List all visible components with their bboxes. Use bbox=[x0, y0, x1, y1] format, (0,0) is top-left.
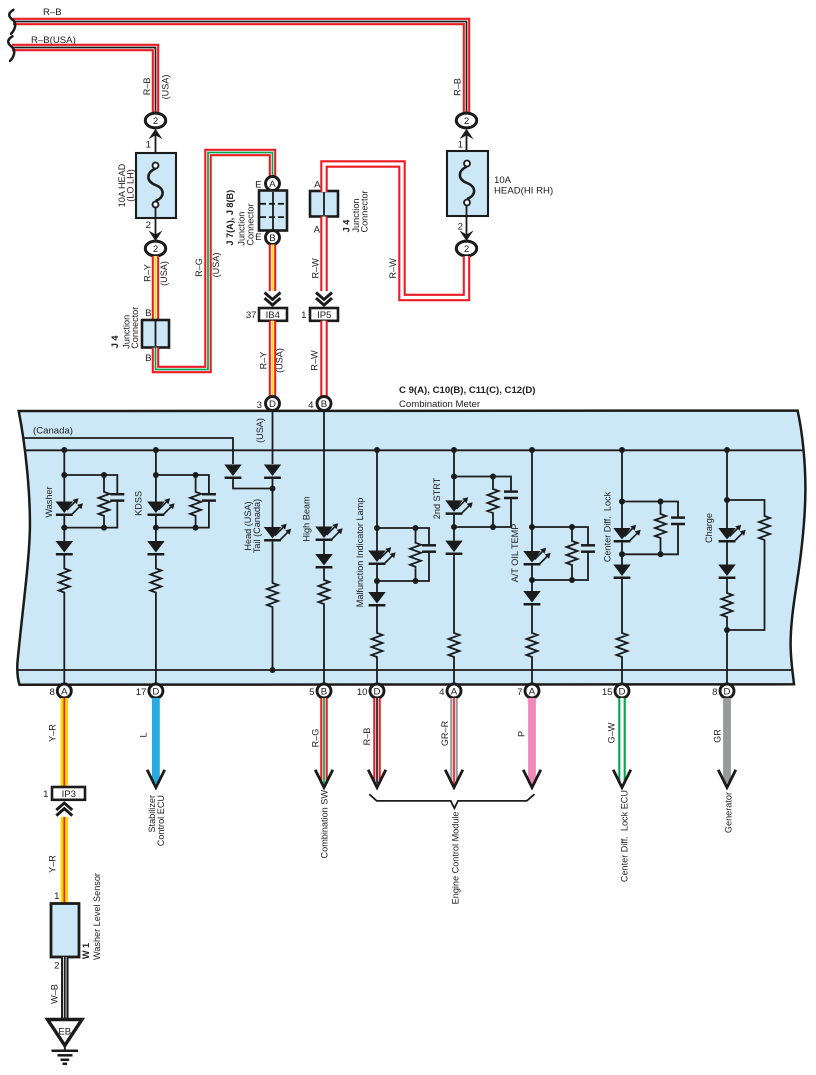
svg-text:R–G: R–G bbox=[310, 729, 320, 748]
parallel RC rails Washer bbox=[64, 475, 117, 528]
svg-text:(USA): (USA) bbox=[274, 348, 284, 373]
svg-text:A: A bbox=[314, 180, 321, 191]
svg-text:(USA): (USA) bbox=[211, 253, 221, 278]
diode A/T OIL TEMP bbox=[531, 580, 533, 591]
meter pin 15 D (bottom) bbox=[615, 684, 629, 698]
wire W-B sensor to ground bbox=[61, 957, 69, 1020]
svg-text:GR–R: GR–R bbox=[440, 720, 450, 746]
svg-text:L: L bbox=[138, 732, 148, 737]
wire GR-R bbox=[450, 698, 458, 784]
diode Malfunction Indicator Lamp bbox=[376, 581, 378, 592]
connector oval 2 below fuse LO LH bbox=[145, 241, 165, 256]
wire G-W bbox=[618, 698, 626, 784]
meter pin 8 D (bottom) bbox=[720, 684, 734, 698]
svg-text:IB4: IB4 bbox=[266, 310, 281, 321]
wire GR bbox=[723, 698, 731, 784]
resistor parallel Washer bbox=[103, 475, 105, 490]
svg-text:2: 2 bbox=[54, 961, 59, 972]
continuation brace top wire R-B bbox=[9, 10, 15, 34]
wire R-B top feed bbox=[13, 22, 467, 114]
wire L bbox=[152, 698, 160, 784]
svg-text:J 4: J 4 bbox=[110, 335, 120, 349]
svg-text:Charge: Charge bbox=[704, 513, 714, 543]
svg-text:1: 1 bbox=[458, 140, 463, 151]
svg-text:Malfunction Indicator Lamp: Malfunction Indicator Lamp bbox=[355, 498, 365, 608]
svg-text:Engine Control Module: Engine Control Module bbox=[450, 812, 460, 905]
bus tap KDSS bbox=[153, 447, 159, 453]
node bottom Malfunction Indicator Lamp bbox=[374, 578, 380, 584]
bus tap Charge bbox=[724, 447, 730, 453]
svg-text:Control ECU: Control ECU bbox=[156, 795, 166, 846]
svg-text:J 7(A), J 8(B): J 7(A), J 8(B) bbox=[225, 190, 235, 246]
svg-text:Washer: Washer bbox=[44, 486, 54, 517]
bus tap A/T OIL TEMP bbox=[529, 447, 535, 453]
node top Charge bbox=[724, 497, 730, 503]
svg-text:Center Diff. Lock: Center Diff. Lock bbox=[602, 491, 612, 562]
node top Malfunction Indicator Lamp bbox=[374, 525, 380, 531]
wire R-B(USA) feed bbox=[12, 48, 156, 114]
svg-text:IP5: IP5 bbox=[317, 310, 331, 321]
wire Y-R IP3 to washer level sensor bbox=[61, 817, 69, 904]
LED A/T OIL TEMP bbox=[531, 527, 533, 551]
svg-text:KDSS: KDSS bbox=[133, 491, 143, 516]
svg-text:D: D bbox=[619, 686, 626, 697]
combination meter body bbox=[17, 411, 805, 685]
connector oval 2 above fuse HI RH bbox=[456, 113, 476, 128]
svg-text:R–Y: R–Y bbox=[142, 264, 152, 282]
LED Center Diff. Lock bbox=[621, 502, 623, 529]
connector IP3 bbox=[52, 787, 85, 800]
svg-text:15: 15 bbox=[602, 687, 613, 698]
pin stem 1 of fuse LO LH bbox=[155, 130, 157, 163]
svg-text:B: B bbox=[269, 233, 275, 244]
svg-text:(Canada): (Canada) bbox=[33, 426, 73, 437]
arrow to bbox=[523, 770, 541, 788]
wire internal bottom bus bbox=[18, 669, 792, 671]
capacitor parallel Washer bbox=[110, 493, 124, 496]
svg-text:(USA): (USA) bbox=[159, 261, 169, 286]
node bottom A/T OIL TEMP bbox=[529, 577, 535, 583]
svg-text:Y–R: Y–R bbox=[47, 724, 57, 742]
svg-text:R–G: R–G bbox=[194, 258, 204, 277]
LED Malfunction Indicator Lamp bbox=[376, 528, 378, 551]
bus tap Center Diff. Lock bbox=[619, 447, 625, 453]
wire R-G (USA) J4 to J7 bbox=[156, 153, 273, 370]
svg-text:(LO LH): (LO LH) bbox=[126, 169, 136, 201]
svg-text:E: E bbox=[255, 179, 261, 190]
wire R-Y (USA) from J7 pin B bbox=[269, 245, 277, 292]
wire P bbox=[528, 698, 536, 784]
pin stem 2 of fuse LO LH bbox=[155, 207, 157, 240]
svg-text:Y–R: Y–R bbox=[47, 855, 57, 873]
svg-text:D: D bbox=[724, 686, 731, 697]
diode KDSS bbox=[155, 528, 157, 541]
meter pin 3 D (top) bbox=[266, 397, 280, 411]
junction connector J4 (right) bbox=[310, 191, 338, 217]
node bottom Charge bbox=[724, 627, 730, 633]
svg-text:3: 3 bbox=[257, 400, 262, 411]
node top Center Diff. Lock bbox=[619, 499, 625, 505]
diode (USA) head/tail bbox=[272, 411, 274, 465]
svg-text:R–Y: R–Y bbox=[259, 352, 269, 370]
arrow to bbox=[368, 770, 386, 788]
svg-text:R–B: R–B bbox=[43, 7, 62, 18]
junction connector J4 (left) bbox=[142, 320, 169, 348]
resistor series A/T OIL TEMP bbox=[531, 604, 533, 631]
resistor series Washer bbox=[63, 554, 65, 566]
svg-text:A/T OIL TEMP: A/T OIL TEMP bbox=[510, 524, 520, 583]
resistor series 2nd STRT bbox=[453, 554, 455, 631]
svg-text:B: B bbox=[321, 399, 327, 410]
diode Charge bbox=[726, 541, 728, 565]
svg-text:Connector: Connector bbox=[130, 307, 140, 349]
wire R-W fuse HI RH to J4 bbox=[324, 164, 467, 298]
connector oval 2 above fuse LO LH bbox=[145, 113, 165, 128]
svg-text:A: A bbox=[269, 179, 276, 190]
svg-text:R–B: R–B bbox=[362, 728, 372, 746]
svg-text:B: B bbox=[145, 353, 151, 364]
wire (Canada) branch bbox=[23, 438, 233, 464]
continuation brace wire R-B(USA) bbox=[8, 36, 14, 61]
parallel RC rails KDSS bbox=[156, 475, 209, 528]
arrow to bbox=[445, 770, 463, 788]
parallel RC rails A/T OIL TEMP bbox=[532, 527, 588, 580]
LED Washer bbox=[63, 475, 65, 502]
svg-text:B: B bbox=[145, 308, 151, 319]
node top KDSS bbox=[153, 472, 159, 478]
svg-text:7: 7 bbox=[517, 687, 522, 698]
svg-text:R–B: R–B bbox=[452, 78, 462, 96]
node bottom 2nd STRT bbox=[451, 524, 457, 530]
svg-text:Connector: Connector bbox=[246, 203, 256, 245]
svg-text:HEAD(HI RH): HEAD(HI RH) bbox=[494, 186, 553, 197]
svg-text:G–W: G–W bbox=[606, 722, 616, 743]
svg-text:A: A bbox=[529, 686, 536, 697]
svg-text:2: 2 bbox=[458, 222, 463, 233]
pin stem 2 of fuse HI RH bbox=[466, 205, 468, 240]
double chevron into IB4 bbox=[265, 293, 281, 306]
svg-text:2: 2 bbox=[464, 116, 469, 127]
LED Head (USA) Tail (Canada) bbox=[272, 478, 274, 527]
svg-text:1: 1 bbox=[43, 789, 48, 800]
node top Washer bbox=[61, 472, 67, 478]
svg-text:Combination SW: Combination SW bbox=[319, 790, 329, 859]
svg-text:Center Diff. Lock ECU: Center Diff. Lock ECU bbox=[619, 790, 629, 882]
capacitor parallel A/T OIL TEMP bbox=[581, 544, 595, 547]
resistor parallel Malfunction Indicator Lamp bbox=[415, 528, 417, 541]
resistor parallel A/T OIL TEMP bbox=[571, 527, 573, 539]
junction connector J7(A), J8(B) pin A bbox=[266, 177, 280, 191]
wire internal top bus bbox=[24, 449, 803, 451]
svg-text:W 1: W 1 bbox=[81, 943, 91, 959]
bus tap Washer bbox=[61, 447, 67, 453]
node bottom Washer bbox=[61, 525, 67, 531]
washer level sensor W1 body bbox=[51, 904, 79, 958]
svg-text:Connector: Connector bbox=[360, 190, 370, 232]
svg-text:D: D bbox=[269, 399, 276, 410]
svg-text:5: 5 bbox=[309, 687, 314, 698]
svg-text:J 4: J 4 bbox=[341, 219, 351, 233]
diode (Canada) head/tail bbox=[224, 465, 242, 477]
meter pin 7 A (bottom) bbox=[525, 684, 539, 698]
LED KDSS bbox=[155, 475, 157, 502]
bus tap Malfunction Indicator Lamp bbox=[374, 447, 380, 453]
svg-text:D: D bbox=[374, 686, 381, 697]
meter pin 4 B (top) bbox=[317, 397, 331, 411]
diode Center Diff. Lock bbox=[621, 554, 623, 564]
svg-text:High Beam: High Beam bbox=[301, 496, 311, 541]
meter pin 4 A (bottom) bbox=[447, 684, 461, 698]
svg-text:GR: GR bbox=[712, 729, 722, 743]
svg-text:R–W: R–W bbox=[310, 350, 320, 371]
svg-text:37: 37 bbox=[246, 310, 257, 321]
ground EB bbox=[48, 1020, 83, 1046]
connector IP5 bbox=[310, 308, 338, 321]
resistor parallel 2nd STRT bbox=[492, 477, 494, 488]
svg-text:8: 8 bbox=[712, 687, 717, 698]
resistor series KDSS bbox=[155, 554, 157, 566]
meter pin 17 D (bottom) bbox=[149, 684, 163, 698]
svg-text:R–B: R–B bbox=[142, 78, 152, 96]
fuse 10A HEAD(HI RH) bbox=[447, 151, 488, 216]
ground symbol bbox=[52, 1050, 79, 1053]
svg-text:2: 2 bbox=[153, 116, 158, 127]
wire R-Y (USA) to J4 bbox=[152, 256, 160, 321]
meter pin 10 D (bottom) bbox=[370, 684, 384, 698]
arrow to bbox=[613, 770, 631, 788]
svg-text:17: 17 bbox=[136, 687, 147, 698]
LED 2nd STRT bbox=[453, 477, 455, 501]
parallel RC rails Malfunction Indicator Lamp bbox=[377, 528, 429, 581]
svg-text:2nd STRT: 2nd STRT bbox=[432, 477, 442, 519]
pin stem 1 of fuse HI RH bbox=[466, 130, 468, 163]
resistor parallel KDSS bbox=[195, 475, 197, 490]
capacitor parallel KDSS bbox=[202, 493, 216, 496]
diode Washer bbox=[63, 528, 65, 541]
svg-text:4: 4 bbox=[308, 400, 314, 411]
svg-text:Combination Meter: Combination Meter bbox=[399, 399, 481, 410]
capacitor parallel Center Diff. Lock bbox=[671, 516, 685, 519]
wire R-W IP5 to meter pin 4B bbox=[320, 321, 328, 398]
resistor High Beam bbox=[323, 567, 325, 578]
node bottom Center Diff. Lock bbox=[619, 551, 625, 557]
svg-text:10A: 10A bbox=[494, 175, 512, 186]
svg-text:EB: EB bbox=[58, 1027, 71, 1038]
svg-text:P: P bbox=[516, 731, 526, 737]
svg-text:1: 1 bbox=[146, 140, 151, 151]
svg-text:W–B: W–B bbox=[49, 984, 59, 1004]
resistor series Malfunction Indicator Lamp bbox=[376, 605, 378, 631]
parallel RC rails 2nd STRT bbox=[454, 477, 511, 528]
wire Y-R meter to IP3 bbox=[61, 698, 69, 787]
svg-text:D: D bbox=[152, 686, 159, 697]
resistor series Center Diff. Lock bbox=[621, 578, 623, 631]
junction connector J7(A), J8(B) body bbox=[259, 191, 287, 231]
svg-text:R–B(USA): R–B(USA) bbox=[31, 35, 76, 46]
bus tap 2nd STRT bbox=[451, 447, 457, 453]
resistor head/tail bbox=[272, 540, 274, 581]
wire R-W J4 to IP5 bbox=[320, 217, 328, 292]
svg-text:C 9(A), C10(B), C11(C), C12(D): C 9(A), C10(B), C11(C), C12(D) bbox=[399, 385, 535, 396]
diode High Beam bbox=[323, 540, 325, 554]
meter pin 5 B (bottom) bbox=[317, 684, 331, 698]
svg-text:2: 2 bbox=[153, 244, 158, 255]
svg-text:R–W: R–W bbox=[310, 258, 320, 279]
svg-text:4: 4 bbox=[439, 687, 445, 698]
svg-text:Tail (Canada): Tail (Canada) bbox=[252, 499, 262, 553]
svg-text:2: 2 bbox=[464, 244, 469, 255]
svg-text:1: 1 bbox=[301, 310, 306, 321]
svg-text:2: 2 bbox=[146, 220, 151, 231]
capacitor parallel 2nd STRT bbox=[504, 490, 518, 493]
resistor series Charge bbox=[726, 578, 728, 592]
node bottom KDSS bbox=[153, 525, 159, 531]
capacitor parallel Malfunction Indicator Lamp bbox=[422, 544, 436, 547]
double chevron into IP5 bbox=[316, 293, 332, 306]
wire R-B bbox=[373, 698, 381, 784]
resistor parallel Charge bbox=[727, 500, 765, 514]
svg-text:A: A bbox=[61, 686, 68, 697]
fuse 10A HEAD (LO LH) bbox=[136, 153, 176, 218]
node head/tail join bbox=[270, 486, 276, 492]
arrow to bbox=[147, 770, 165, 788]
node top 2nd STRT bbox=[451, 474, 457, 480]
svg-text:E: E bbox=[255, 232, 261, 243]
LED Charge bbox=[726, 500, 728, 528]
double chevron from IP3 bbox=[56, 803, 72, 816]
diode 2nd STRT bbox=[453, 527, 455, 541]
svg-text:B: B bbox=[321, 686, 327, 697]
meter pin 8 A (bottom) bbox=[57, 684, 71, 698]
svg-text:A: A bbox=[451, 686, 458, 697]
svg-text:(USA): (USA) bbox=[160, 75, 170, 100]
svg-text:A: A bbox=[314, 225, 321, 236]
resistor parallel Center Diff. Lock bbox=[660, 502, 662, 513]
wire R-G bbox=[320, 698, 328, 784]
brace Engine Control Module bbox=[369, 794, 534, 808]
svg-text:1: 1 bbox=[54, 891, 59, 902]
svg-text:Generator: Generator bbox=[723, 792, 733, 833]
node top A/T OIL TEMP bbox=[529, 524, 535, 530]
svg-text:R–W: R–W bbox=[388, 258, 398, 279]
svg-text:(USA): (USA) bbox=[255, 418, 265, 443]
svg-text:10: 10 bbox=[357, 687, 368, 698]
LED High Beam bbox=[323, 411, 325, 527]
svg-text:Washer Level Sensor: Washer Level Sensor bbox=[92, 873, 102, 960]
connector IB4 bbox=[259, 308, 287, 321]
connector oval 2 below fuse HI RH bbox=[456, 241, 476, 256]
junction connector J7(A), J8(B) pin B bbox=[266, 231, 280, 245]
arrow to bbox=[718, 770, 736, 788]
svg-text:8: 8 bbox=[49, 687, 54, 698]
svg-text:IP3: IP3 bbox=[62, 789, 76, 800]
wire R-Y (USA) IB4 to meter pin 3D bbox=[269, 321, 277, 398]
parallel RC rails Center Diff. Lock bbox=[622, 502, 678, 555]
arrow to bbox=[315, 770, 333, 788]
